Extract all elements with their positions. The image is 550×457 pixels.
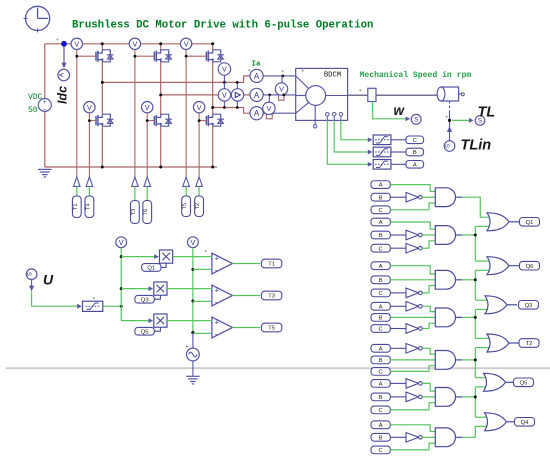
wire multiplier 1 to comparator [173, 256, 211, 258]
mosfet top leg 1 [96, 50, 114, 62]
svg-text:B: B [379, 278, 383, 284]
svg-text:C: C [413, 138, 417, 144]
svg-text:Q5: Q5 [141, 329, 149, 335]
label T2 [519, 339, 539, 348]
label node A [406, 161, 424, 169]
label node C [406, 136, 424, 144]
wire C7 to and [390, 443, 435, 450]
label T4 [85, 196, 94, 218]
label Q5 [135, 327, 161, 335]
wire and2 to or gates [462, 226, 489, 261]
inverter A6 [406, 379, 422, 389]
or gate O1 [487, 213, 519, 231]
svg-text:V: V [222, 65, 227, 74]
wire B5 to and [390, 359, 435, 361]
svg-text:T1: T1 [73, 203, 79, 210]
wire inverter leg 3 midpoint [212, 44, 214, 167]
ammeter phase C [250, 107, 296, 120]
wire shaft left [348, 94, 368, 96]
wire modulation bus [120, 248, 123, 321]
svg-text:V: V [267, 104, 272, 113]
svg-text:Q1: Q1 [526, 220, 534, 226]
svg-text:A: A [59, 72, 66, 77]
probe V phase A [218, 63, 230, 84]
multiplier 2 [149, 282, 168, 295]
gate drive arrow T6 [144, 177, 151, 201]
node leg 1 top rail [101, 42, 104, 45]
svg-text:TL: TL [478, 105, 496, 121]
or gate O6 [485, 413, 517, 431]
wire inverter leg 1 midpoint [101, 44, 103, 167]
wire gate top leg 2 [134, 50, 155, 177]
label node A group 6 [371, 380, 390, 388]
gate drive arrow T4 [86, 177, 93, 196]
torque source TLin [444, 122, 455, 151]
mosfet top leg 2 [154, 50, 172, 62]
svg-text:B: B [379, 233, 383, 239]
svg-text:50: 50 [28, 106, 38, 115]
label Q4 [515, 418, 535, 427]
inverter C4 [406, 324, 422, 334]
wire A6 to inverter [390, 382, 406, 384]
svg-text:A: A [379, 381, 383, 387]
polarity marks [57, 39, 448, 300]
svg-text:C: C [379, 208, 383, 214]
svg-text:Q4: Q4 [521, 420, 530, 426]
label node C group 6 [371, 406, 390, 414]
wire A2 to and [390, 222, 435, 229]
label node C group 1 [371, 206, 390, 214]
wire comparator 2 output [232, 295, 260, 297]
wire comparator 3 output [232, 327, 260, 329]
page boundary line [6, 367, 550, 369]
inverter A5 [406, 344, 422, 354]
wire hall label A [391, 163, 406, 165]
wire A1 to and [390, 185, 435, 192]
wire to multiplier 1 [121, 256, 158, 258]
and gate U5 [435, 351, 462, 370]
label node A group 7 [371, 421, 390, 429]
label node B group 6 [371, 393, 390, 401]
label T2 [195, 196, 204, 217]
svg-text:+: + [215, 253, 220, 262]
svg-text:V: V [133, 39, 138, 48]
wire B2 to inverter [390, 234, 406, 236]
svg-text:C: C [379, 327, 383, 333]
wire C5 to and [390, 366, 435, 372]
svg-text:T4: T4 [85, 203, 91, 210]
wire inverter leg 2 midpoint [160, 44, 162, 167]
wire gate bottom leg 2 [146, 113, 155, 177]
wire C6 to and [390, 403, 435, 410]
svg-text:V: V [119, 238, 124, 247]
gate drive arrow T3 [132, 177, 139, 201]
ground carrier [186, 376, 200, 384]
wire B7 to inverter [390, 436, 406, 438]
wire hall sensor c [327, 120, 368, 164]
label node C group 5 [371, 368, 390, 376]
svg-text:A: A [379, 264, 383, 270]
mechanical load [437, 87, 464, 101]
voltage sensor Vbc [263, 95, 275, 119]
wire hall sensor b [334, 120, 368, 152]
wire and3 to or gates [462, 270, 489, 300]
label Q5 [514, 378, 534, 387]
svg-text:T1: T1 [268, 262, 275, 268]
label T1 [261, 259, 281, 268]
wire comparator 1 output [232, 263, 260, 265]
wire C2 to inverter [390, 247, 406, 249]
probe V gate bottom leg 3 [193, 102, 204, 113]
voltage sensor Vab [275, 76, 287, 100]
svg-text:C: C [379, 448, 383, 454]
svg-text:+: + [43, 99, 47, 106]
svg-text:−: − [215, 266, 220, 275]
or gate O3 [485, 296, 517, 314]
inverter C3 [406, 288, 422, 298]
label T5 [261, 323, 281, 332]
and gate U3 [435, 270, 462, 289]
multiplier 3 [149, 314, 168, 327]
svg-text:Q5: Q5 [520, 380, 528, 386]
or gate O4 [487, 334, 519, 352]
multiplier 1 [154, 250, 173, 263]
label T5 [182, 196, 191, 217]
label T3 [131, 201, 140, 224]
wire and1 to or1 [462, 197, 489, 217]
comparator block hall 1 [368, 135, 391, 145]
limiter block U [77, 301, 103, 311]
op-amp comparator 2 [212, 285, 233, 307]
svg-text:B: B [379, 435, 383, 441]
and gate U1 [435, 188, 462, 207]
wire and6 to or gates [462, 387, 489, 417]
probe V gate top leg 1 [71, 38, 82, 49]
svg-text:T3: T3 [131, 209, 137, 216]
wire phase C [211, 106, 250, 113]
gate drive arrow T1 [74, 177, 81, 196]
svg-text:U: U [43, 271, 54, 287]
svg-text:Q6: Q6 [526, 264, 534, 270]
svg-text:BDCM: BDCM [324, 71, 341, 79]
ground dc bus [38, 169, 52, 177]
mosfet top leg 3 [206, 50, 224, 62]
comparator block hall 2 [368, 147, 391, 157]
coupling block [368, 88, 376, 101]
svg-text:−: − [215, 330, 220, 339]
wire to multiplier 3 [121, 320, 152, 322]
wire torque node [448, 101, 451, 122]
svg-text:C: C [379, 291, 383, 297]
wire C3 to inverter [390, 292, 406, 294]
inverter B7 [406, 433, 422, 443]
label node C group 2 [371, 244, 390, 252]
wire carrier to comparator 2 [193, 300, 211, 302]
wire A4 to inverter [390, 305, 406, 307]
wire phase B [159, 93, 250, 96]
wire and5 to or gates [462, 348, 489, 378]
probe V gate bottom leg 2 [142, 102, 153, 113]
label T6 [143, 201, 152, 224]
svg-text:V: V [87, 103, 92, 112]
probe V gate top leg 3 [180, 38, 191, 49]
dc source VDC 50 [38, 44, 51, 167]
label node B group 4 [371, 314, 390, 322]
svg-text:V: V [74, 39, 79, 48]
svg-text:+: + [215, 317, 220, 326]
ammeter phase B [250, 88, 296, 101]
wire carrier to comparator 1 [193, 268, 211, 270]
voltage sensor arrow [231, 81, 243, 109]
svg-text:C: C [379, 408, 383, 414]
svg-text:A: A [379, 346, 383, 352]
svg-text:A: A [379, 423, 383, 429]
svg-text:C: C [379, 246, 383, 252]
svg-text:Idc: Idc [56, 86, 70, 104]
and gate U4 [435, 308, 462, 327]
op-amp comparator 1 [212, 253, 233, 275]
svg-text:A: A [379, 220, 383, 226]
svg-text:Q3: Q3 [525, 303, 533, 309]
ammeter Ia phase A [250, 69, 296, 82]
probe V gate top leg 2 [129, 38, 140, 49]
label node B group 7 [371, 433, 390, 441]
source U [26, 269, 37, 291]
svg-text:A: A [379, 304, 383, 310]
inverter C2 [406, 243, 422, 253]
label node C group 4 [371, 325, 390, 333]
label node A group 3 [371, 262, 390, 270]
wire dc bus negative rail [45, 166, 217, 168]
wire to multiplier 2 [121, 288, 152, 290]
svg-text:A: A [379, 183, 383, 189]
wire carrier bus [191, 248, 194, 335]
node leg 3 bottom rail [211, 166, 214, 169]
svg-text:VDC: VDC [28, 93, 43, 102]
label Q1 [520, 218, 540, 227]
wire hall label B [391, 151, 406, 153]
wire hall label C [391, 139, 406, 141]
clock icon [24, 6, 50, 32]
label node B [406, 148, 424, 156]
svg-text:C: C [379, 369, 383, 375]
label Q6 [520, 261, 540, 270]
label node C group 3 [371, 289, 390, 297]
svg-text:T5: T5 [268, 326, 275, 332]
label node B group 3 [371, 276, 390, 284]
comparator block hall 3 [368, 160, 391, 170]
label Q1 [142, 263, 167, 271]
probe V modulation [116, 237, 127, 248]
wire gate bottom leg 3 [198, 113, 207, 177]
svg-text:V: V [145, 103, 150, 112]
svg-text:V: V [197, 103, 202, 112]
svg-text:Brushless DC Motor Drive with: Brushless DC Motor Drive with 6-pulse Op… [72, 20, 373, 32]
voltage sensor V line AB [218, 82, 230, 109]
motor BDCM [296, 68, 348, 128]
wire inverter B1 to and [422, 196, 435, 198]
and gate U2 [435, 226, 462, 245]
label node B group 2 [371, 231, 390, 239]
wire U to limiter [32, 291, 81, 306]
wire inverter A6 to and [422, 383, 435, 391]
svg-text:S: S [446, 144, 452, 148]
svg-text:S: S [28, 272, 34, 276]
svg-text:−: − [43, 107, 47, 114]
or gate O2 [487, 257, 519, 275]
svg-text:−: − [215, 298, 220, 307]
svg-text:B: B [379, 315, 383, 321]
wire B1 to inverter [390, 196, 406, 198]
wire A5 to inverter [390, 347, 406, 349]
label node A group 2 [371, 218, 390, 226]
and gate U7 [435, 428, 462, 447]
wire carrier to comparator 3 [193, 332, 211, 334]
wire inverter A4 to and [422, 306, 435, 311]
gate drive arrow T2 [196, 177, 203, 196]
wire gate bottom leg 1 [88, 113, 96, 177]
label VDC 50 [28, 93, 43, 115]
svg-text:Q3: Q3 [141, 297, 149, 303]
wire B6 to inverter [390, 396, 406, 398]
inverter B2 [406, 230, 422, 240]
label node B group 5 [371, 356, 390, 364]
label Q3 [519, 301, 539, 310]
label Q3 [135, 295, 161, 303]
wire inverter B2 to and [422, 234, 435, 236]
label node A group 5 [371, 344, 390, 352]
svg-text:B: B [379, 358, 383, 364]
mosfet bottom leg 1 [96, 114, 114, 126]
node leg 1 bottom rail [101, 166, 104, 169]
wire limiter to bus [103, 305, 123, 308]
mosfet bottom leg 2 [154, 114, 172, 126]
inverter B6 [406, 392, 422, 402]
wire C4 to inverter [390, 328, 406, 330]
mosfet bottom leg 3 [206, 114, 224, 126]
svg-text:T3: T3 [268, 294, 275, 300]
wire gate top leg 3 [185, 50, 207, 177]
wire inverter C2 to and [422, 241, 435, 248]
svg-text:T2: T2 [195, 203, 201, 210]
current sensor Idc [58, 47, 70, 81]
wire inverter C3 to and [422, 286, 435, 293]
op-amp comparator 3 [212, 317, 233, 339]
and gate U6 [435, 388, 462, 407]
label node A group 4 [371, 302, 390, 310]
node dc positive [61, 41, 67, 47]
svg-text:B: B [413, 150, 417, 156]
svg-text:V: V [279, 85, 284, 94]
wire B3 to and [390, 279, 435, 281]
wire inverter B7 to and [422, 436, 435, 438]
wire multiplier 2 to comparator [167, 288, 211, 290]
svg-text:A: A [254, 72, 260, 81]
wire and4 to or gates [462, 309, 489, 338]
label node A group 1 [371, 181, 390, 189]
or gate O5 [484, 373, 516, 391]
inverter A4 [406, 302, 422, 312]
wire inverter A5 to and [422, 348, 435, 354]
label T1 [72, 196, 81, 218]
svg-text:A: A [254, 91, 260, 100]
wire phase A [101, 76, 250, 84]
svg-text:A: A [413, 162, 417, 168]
svg-text:A: A [254, 109, 260, 118]
wire gate top leg 1 [75, 50, 96, 177]
svg-text:TLin: TLin [461, 138, 492, 154]
svg-text:T2: T2 [526, 341, 533, 347]
label node C group 7 [371, 446, 390, 454]
wire inverter B6 to and [422, 396, 435, 398]
wire multiplier 3 to comparator [167, 320, 211, 322]
torque sensor TL [452, 116, 485, 126]
wire inverter C4 to and [422, 323, 435, 328]
wire C1 to and [390, 203, 435, 210]
svg-text:V: V [184, 39, 189, 48]
node leg 2 bottom rail [159, 166, 162, 169]
wire B4 to and [390, 316, 435, 318]
carrier source [185, 333, 199, 377]
label T3 [261, 291, 281, 300]
gate drive arrow T5 [183, 177, 190, 196]
svg-text:B: B [379, 195, 383, 201]
probe V carrier [188, 237, 199, 248]
svg-text:w: w [394, 103, 406, 118]
wire dc bus positive rail [45, 43, 213, 45]
wire A3 to and [390, 266, 435, 274]
node leg 3 top rail [211, 42, 214, 45]
svg-text:S: S [414, 117, 418, 124]
wire A7 to and [390, 425, 435, 432]
wire shaft right [376, 94, 437, 96]
svg-text:Q1: Q1 [147, 266, 155, 272]
svg-text:T6: T6 [143, 209, 149, 216]
label node B group 1 [371, 193, 390, 201]
svg-text:T5: T5 [182, 203, 188, 210]
svg-text:V: V [191, 238, 196, 247]
svg-text:V: V [222, 90, 227, 99]
probe V gate bottom leg 1 [84, 102, 95, 113]
svg-text:+: + [215, 285, 220, 294]
wire hall sensor a [341, 120, 369, 139]
inverter B1 [406, 192, 422, 202]
node leg 2 top rail [159, 42, 162, 45]
svg-text:Mechanical Speed in rpm: Mechanical Speed in rpm [360, 71, 472, 80]
speed sensor w [373, 102, 422, 125]
svg-text:B: B [379, 395, 383, 401]
wire and7 to or6 [462, 426, 489, 437]
svg-text:Ia: Ia [251, 61, 261, 69]
